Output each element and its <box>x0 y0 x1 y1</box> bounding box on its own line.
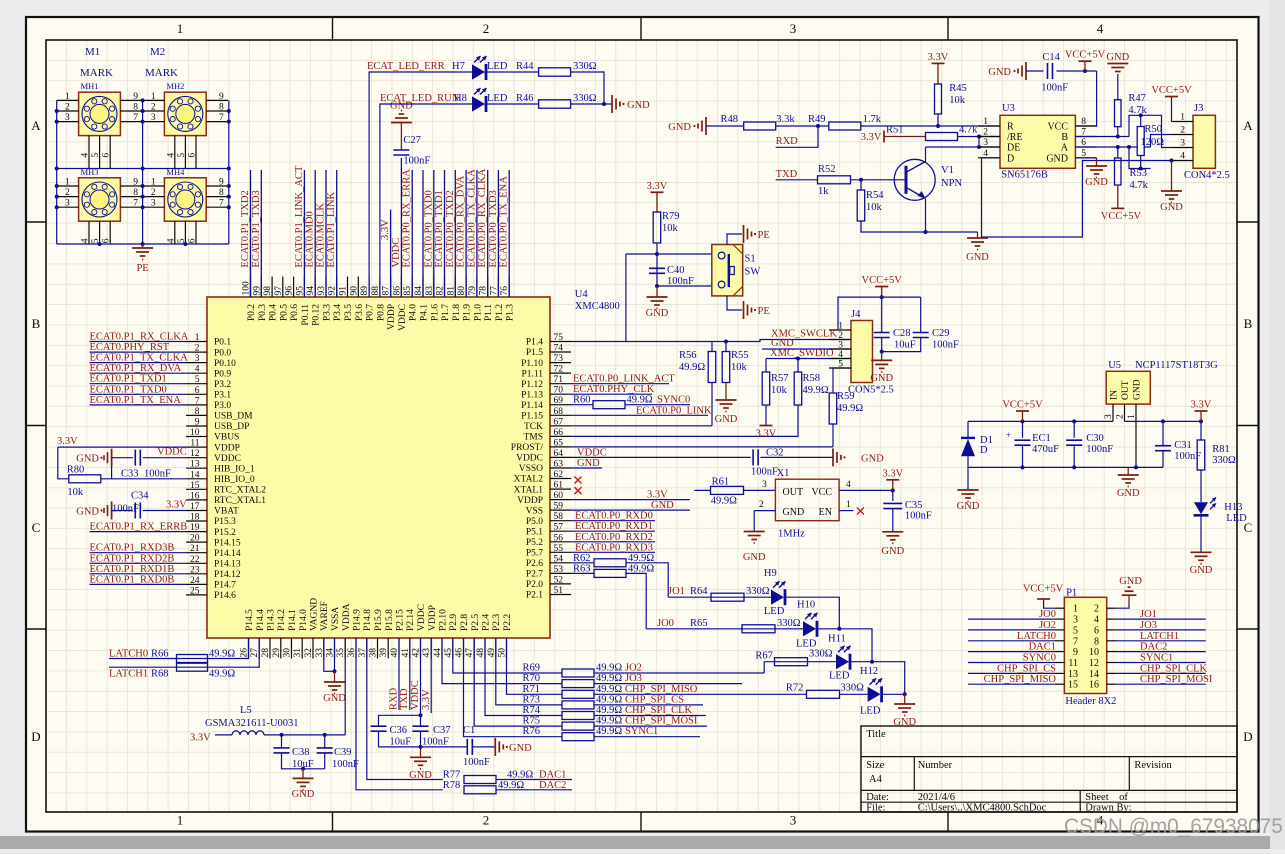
svg-text:ECAT0.P1_TXD0: ECAT0.P1_TXD0 <box>90 384 167 395</box>
svg-text:P14.5: P14.5 <box>245 609 255 631</box>
svg-text:LATCH1: LATCH1 <box>109 669 148 680</box>
svg-text:P3.0: P3.0 <box>214 401 231 411</box>
svg-text:7: 7 <box>195 396 200 406</box>
svg-text:MARK: MARK <box>145 67 178 79</box>
svg-text:VDDC: VDDC <box>391 238 402 268</box>
svg-text:P1.13: P1.13 <box>521 390 543 400</box>
svg-text:R67: R67 <box>755 651 773 662</box>
svg-text:LED: LED <box>764 606 785 617</box>
svg-text:100nF: 100nF <box>667 276 694 287</box>
svg-text:R46: R46 <box>516 93 534 104</box>
svg-text:R61: R61 <box>712 476 730 487</box>
svg-text:49.9Ω: 49.9Ω <box>596 716 622 727</box>
svg-text:R52: R52 <box>818 164 836 175</box>
svg-text:Size: Size <box>866 760 884 771</box>
svg-text:GND: GND <box>966 252 989 263</box>
svg-text:9: 9 <box>219 178 224 188</box>
svg-text:69: 69 <box>554 396 564 406</box>
svg-text:USB_DM: USB_DM <box>214 412 253 422</box>
svg-text:P14.13: P14.13 <box>214 560 241 570</box>
svg-text:57: 57 <box>554 523 564 533</box>
svg-text:ECAT0.P0_TXD2: ECAT0.P0_TXD2 <box>445 190 456 267</box>
svg-text:TCK: TCK <box>524 422 543 432</box>
svg-text:2021/4/6: 2021/4/6 <box>918 792 955 803</box>
svg-text:4: 4 <box>838 350 843 360</box>
svg-text:P14.15: P14.15 <box>214 538 241 548</box>
svg-text:11: 11 <box>1068 658 1078 669</box>
svg-text:12: 12 <box>1089 658 1099 669</box>
svg-text:P14.7: P14.7 <box>214 581 236 591</box>
svg-text:330Ω: 330Ω <box>1212 455 1236 466</box>
svg-text:SYNC0: SYNC0 <box>1023 653 1056 664</box>
svg-text:R60: R60 <box>573 395 591 406</box>
svg-text:P1.4: P1.4 <box>526 338 543 348</box>
svg-text:P0.8: P0.8 <box>376 304 386 321</box>
svg-text:SN65176B: SN65176B <box>1001 170 1048 181</box>
svg-text:1: 1 <box>151 92 156 102</box>
svg-text:6: 6 <box>188 153 198 158</box>
svg-text:VCC+5V: VCC+5V <box>1002 400 1043 411</box>
svg-text:P4.0: P4.0 <box>409 304 419 321</box>
svg-text:TXD: TXD <box>776 169 798 180</box>
svg-text:P0.10: P0.10 <box>214 359 236 369</box>
svg-text:ECAT0.P0_LINK: ECAT0.P0_LINK <box>636 405 712 416</box>
svg-text:4.7k: 4.7k <box>1128 105 1147 116</box>
svg-text:100nF: 100nF <box>332 759 359 770</box>
svg-text:GND: GND <box>627 100 650 111</box>
svg-text:TMS: TMS <box>523 433 543 443</box>
svg-text:CHP_SPI_MOSI: CHP_SPI_MOSI <box>1140 674 1213 685</box>
svg-text:R75: R75 <box>522 716 540 727</box>
svg-text:1MHz: 1MHz <box>778 529 805 540</box>
svg-text:P1.9: P1.9 <box>463 304 473 321</box>
svg-text:15: 15 <box>1068 680 1078 691</box>
svg-text:1k: 1k <box>818 186 829 197</box>
svg-text:A4: A4 <box>869 774 883 785</box>
svg-text:P14.8: P14.8 <box>363 609 373 631</box>
svg-text:J3: J3 <box>1194 103 1203 114</box>
svg-text:3: 3 <box>151 199 156 209</box>
svg-text:P5.0: P5.0 <box>526 517 543 527</box>
svg-text:P14.4: P14.4 <box>256 609 266 631</box>
svg-text:10k: 10k <box>949 95 966 106</box>
svg-text:B: B <box>1061 132 1068 143</box>
svg-text:4: 4 <box>1180 152 1185 162</box>
svg-text:10: 10 <box>190 428 200 438</box>
svg-text:C29: C29 <box>932 328 950 339</box>
svg-text:Sheet of: Sheet of <box>1085 792 1128 803</box>
svg-text:3.3V: 3.3V <box>647 490 668 501</box>
svg-text:R51: R51 <box>886 125 904 136</box>
svg-text:C27: C27 <box>403 135 421 146</box>
svg-text:4: 4 <box>195 365 200 375</box>
svg-text:VDDA: VDDA <box>342 603 352 631</box>
svg-text:49.9Ω: 49.9Ω <box>596 673 622 684</box>
svg-text:P15.3: P15.3 <box>214 517 236 527</box>
svg-text:3: 3 <box>151 113 156 123</box>
svg-text:10uF: 10uF <box>292 759 314 770</box>
svg-text:1: 1 <box>846 500 851 510</box>
svg-text:P0.9: P0.9 <box>214 369 231 379</box>
svg-text:GND: GND <box>1119 576 1142 587</box>
svg-text:100nF: 100nF <box>932 340 959 351</box>
svg-text:5: 5 <box>91 153 101 158</box>
svg-text:H8: H8 <box>454 93 467 104</box>
svg-text:GND: GND <box>76 507 99 518</box>
svg-text:1: 1 <box>65 92 70 102</box>
svg-text:R68: R68 <box>151 669 169 680</box>
svg-text:C40: C40 <box>667 265 685 276</box>
svg-text:SYNC1: SYNC1 <box>1140 653 1173 664</box>
svg-text:GND: GND <box>76 454 99 465</box>
svg-text:P1.12: P1.12 <box>521 380 543 390</box>
svg-text:RTC_XTAL2: RTC_XTAL2 <box>214 486 266 496</box>
svg-text:49.9Ω: 49.9Ω <box>628 563 654 574</box>
svg-text:49.9Ω: 49.9Ω <box>596 705 622 716</box>
svg-text:R47: R47 <box>1128 93 1146 104</box>
svg-text:49.9Ω: 49.9Ω <box>803 385 829 396</box>
svg-text:P1: P1 <box>1066 588 1077 599</box>
svg-text:HIB_IO_1: HIB_IO_1 <box>214 464 255 474</box>
svg-text:ECAT0.P0_TXD0: ECAT0.P0_TXD0 <box>423 190 434 267</box>
svg-text:5: 5 <box>1073 625 1078 636</box>
svg-text:PE: PE <box>136 263 148 274</box>
svg-text:D: D <box>31 729 40 744</box>
svg-text:TXD: TXD <box>399 688 410 710</box>
svg-text:A: A <box>1061 143 1069 154</box>
svg-text:3.3V: 3.3V <box>928 52 949 63</box>
svg-text:C: C <box>32 520 41 535</box>
svg-text:4: 4 <box>81 153 91 158</box>
svg-text:38: 38 <box>369 648 379 658</box>
svg-text:ECAT0.P1_LINK: ECAT0.P1_LINK <box>326 192 337 268</box>
svg-text:JO1: JO1 <box>1140 609 1157 620</box>
svg-text:JO2: JO2 <box>1039 620 1056 631</box>
svg-text:3.3k: 3.3k <box>776 114 795 125</box>
svg-text:29: 29 <box>272 648 282 658</box>
svg-text:1: 1 <box>151 178 156 188</box>
svg-text:LED: LED <box>487 93 508 104</box>
svg-text:P0.1: P0.1 <box>214 338 231 348</box>
svg-text:ECAT0.P0_TXD3: ECAT0.P0_TXD3 <box>488 190 499 267</box>
svg-text:VDDP: VDDP <box>517 496 543 506</box>
svg-text:13: 13 <box>190 460 200 470</box>
svg-text:H11: H11 <box>828 634 846 645</box>
svg-text:P15.9: P15.9 <box>374 609 384 631</box>
svg-text:1: 1 <box>177 21 184 36</box>
svg-text:R70: R70 <box>522 673 540 684</box>
svg-text:C32: C32 <box>766 447 784 458</box>
svg-text:CHP_SPI_CS: CHP_SPI_CS <box>625 694 684 705</box>
svg-text:330Ω: 330Ω <box>746 586 770 597</box>
svg-text:XMC4800: XMC4800 <box>575 301 620 312</box>
svg-text:14: 14 <box>190 470 200 480</box>
svg-text:RXD: RXD <box>776 136 799 147</box>
svg-text:P0.3: P0.3 <box>258 304 268 321</box>
svg-text:ECAT_LED_ERR: ECAT_LED_ERR <box>367 61 445 72</box>
svg-text:VCC: VCC <box>811 487 832 498</box>
svg-text:7: 7 <box>219 113 224 123</box>
svg-text:J4: J4 <box>851 309 861 320</box>
svg-text:NCP1117ST18T3G: NCP1117ST18T3G <box>1135 360 1218 371</box>
svg-text:B: B <box>32 316 41 331</box>
svg-text:LED: LED <box>829 671 850 682</box>
svg-text:VSS: VSS <box>526 506 543 516</box>
svg-text:VDDC: VDDC <box>516 454 543 464</box>
svg-text:ECAT0.P1_RX_DVA: ECAT0.P1_RX_DVA <box>90 363 182 374</box>
svg-text:P1.3: P1.3 <box>506 304 516 321</box>
svg-text:P2.2: P2.2 <box>503 614 513 631</box>
svg-text:ECAT0.P0_RX_ERRA: ECAT0.P0_RX_ERRA <box>402 169 413 268</box>
svg-text:VBUS: VBUS <box>214 433 239 443</box>
svg-text:CHP_SPI_CS: CHP_SPI_CS <box>997 663 1056 674</box>
svg-text:ECAT0.P0_RXD1: ECAT0.P0_RXD1 <box>575 521 653 532</box>
svg-text:9: 9 <box>219 92 224 102</box>
svg-text:P1.15: P1.15 <box>521 412 543 422</box>
svg-text:P2.14: P2.14 <box>406 609 416 631</box>
svg-text:3.3V: 3.3V <box>421 689 432 710</box>
svg-text:1: 1 <box>1073 604 1078 615</box>
svg-text:RXD: RXD <box>389 687 400 710</box>
svg-text:C35: C35 <box>905 500 923 511</box>
svg-text:P2.10: P2.10 <box>439 609 449 631</box>
svg-text:VSSA: VSSA <box>331 607 341 631</box>
svg-text:GND: GND <box>409 770 432 781</box>
svg-text:GND: GND <box>861 453 884 464</box>
svg-text:LATCH1: LATCH1 <box>1140 631 1179 642</box>
svg-text:7: 7 <box>219 199 224 209</box>
svg-text:P2.3: P2.3 <box>492 614 502 631</box>
svg-text:V1: V1 <box>941 165 954 176</box>
svg-text:49.9Ω: 49.9Ω <box>209 649 235 660</box>
svg-text:XTAL1: XTAL1 <box>514 485 544 495</box>
svg-text:39: 39 <box>379 648 389 658</box>
svg-text:VDDC: VDDC <box>410 680 421 710</box>
svg-text:A: A <box>1243 118 1253 133</box>
svg-text:ECAT0.P1_LINK_ACT: ECAT0.P1_LINK_ACT <box>294 165 305 267</box>
svg-text:72: 72 <box>554 365 564 375</box>
svg-text:1: 1 <box>177 813 184 828</box>
svg-text:GND: GND <box>783 507 805 518</box>
svg-text:P15.8: P15.8 <box>385 609 395 631</box>
svg-text:R55: R55 <box>731 350 749 361</box>
svg-text:2: 2 <box>1094 604 1099 615</box>
svg-text:8: 8 <box>133 188 138 198</box>
svg-text:U4: U4 <box>575 289 589 300</box>
svg-text:9: 9 <box>133 178 138 188</box>
svg-text:ECAT0.P0_TX_CLKA: ECAT0.P0_TX_CLKA <box>466 169 477 268</box>
svg-text:VSSO: VSSO <box>519 464 543 474</box>
svg-text:P0.11: P0.11 <box>301 304 311 326</box>
svg-text:GND: GND <box>715 414 738 425</box>
svg-text:9: 9 <box>133 92 138 102</box>
svg-text:P3.6: P3.6 <box>355 304 365 321</box>
svg-text:VDDC: VDDC <box>577 447 607 458</box>
svg-text:H13: H13 <box>1224 502 1242 513</box>
svg-text:GND: GND <box>1133 379 1143 400</box>
svg-text:73: 73 <box>554 354 564 364</box>
svg-text:5: 5 <box>195 375 200 385</box>
svg-text:8: 8 <box>1081 117 1086 127</box>
svg-text:ECAT0.P0_RX_CLKA: ECAT0.P0_RX_CLKA <box>477 168 488 267</box>
svg-text:P2.15: P2.15 <box>396 609 406 631</box>
svg-text:CHP_SPI_MISO: CHP_SPI_MISO <box>984 674 1057 685</box>
svg-text:GND: GND <box>743 552 766 563</box>
svg-text:P4.1: P4.1 <box>420 304 430 321</box>
svg-text:6: 6 <box>102 153 112 158</box>
svg-text:JO0: JO0 <box>657 618 674 629</box>
svg-text:P3.1: P3.1 <box>214 391 231 401</box>
svg-text:LED: LED <box>796 638 817 649</box>
svg-text:24: 24 <box>190 576 200 586</box>
svg-text:6: 6 <box>102 238 112 243</box>
svg-text:P5.7: P5.7 <box>526 549 543 559</box>
svg-text:GND: GND <box>1046 153 1068 164</box>
svg-text:VCC+5V: VCC+5V <box>1023 584 1064 595</box>
svg-text:ECAT0.PHY_RST: ECAT0.PHY_RST <box>90 342 170 353</box>
svg-text:61: 61 <box>554 481 564 491</box>
svg-text:ECAT0.P1_TXD2: ECAT0.P1_TXD2 <box>240 190 251 267</box>
svg-text:32: 32 <box>304 648 314 658</box>
svg-text:2: 2 <box>483 21 490 36</box>
svg-text:LATCH0: LATCH0 <box>109 649 148 660</box>
svg-text:C30: C30 <box>1086 433 1104 444</box>
svg-text:C1: C1 <box>463 725 475 736</box>
svg-text:XMC_SWDIO: XMC_SWDIO <box>770 348 834 359</box>
svg-text:P2.5: P2.5 <box>471 614 481 631</box>
svg-text:10k: 10k <box>662 223 679 234</box>
svg-text:VDDC: VDDC <box>157 447 187 458</box>
svg-text:D: D <box>1243 729 1252 744</box>
svg-text:7: 7 <box>133 199 138 209</box>
svg-text:5: 5 <box>177 153 187 158</box>
svg-text:ECAT0.P1_RXD3B: ECAT0.P1_RXD3B <box>90 543 175 554</box>
svg-text:GND: GND <box>771 338 794 349</box>
svg-text:1.7k: 1.7k <box>863 114 882 125</box>
svg-text:ECAT0.PHY_CLK: ECAT0.PHY_CLK <box>573 384 655 395</box>
svg-text:VDDP: VDDP <box>214 443 240 453</box>
svg-text:52: 52 <box>554 575 564 585</box>
svg-text:P5.1: P5.1 <box>526 527 543 537</box>
svg-text:X1: X1 <box>777 468 790 479</box>
svg-text:10k: 10k <box>67 487 84 498</box>
svg-text:P2.6: P2.6 <box>526 559 543 569</box>
svg-text:1: 1 <box>195 333 200 343</box>
svg-text:P3.2: P3.2 <box>214 380 231 390</box>
svg-text:CHP_SPI_CLK: CHP_SPI_CLK <box>625 705 693 716</box>
svg-text:C37: C37 <box>433 725 451 736</box>
svg-text:A: A <box>31 118 41 133</box>
svg-text:91: 91 <box>339 286 349 296</box>
svg-text:49.9Ω: 49.9Ω <box>596 726 622 737</box>
svg-text:VDDP: VDDP <box>428 605 438 631</box>
svg-text:49.9Ω: 49.9Ω <box>679 362 705 373</box>
svg-text:1: 1 <box>1180 113 1185 123</box>
svg-text:P3.4: P3.4 <box>333 304 343 321</box>
svg-text:DAC2: DAC2 <box>539 780 566 791</box>
svg-text:6: 6 <box>188 238 198 243</box>
svg-text:C34: C34 <box>131 491 149 502</box>
svg-text:H10: H10 <box>797 599 815 610</box>
svg-text:Title: Title <box>866 729 886 740</box>
svg-text:75: 75 <box>554 333 564 343</box>
svg-text:P0.6: P0.6 <box>290 304 300 321</box>
svg-text:GND: GND <box>668 122 691 133</box>
svg-text:70: 70 <box>554 386 564 396</box>
svg-text:LATCH0: LATCH0 <box>1017 631 1056 642</box>
svg-text:GND: GND <box>292 789 315 800</box>
svg-text:R53: R53 <box>1130 168 1148 179</box>
svg-text:D: D <box>1007 153 1014 164</box>
svg-text:49.9Ω: 49.9Ω <box>627 395 653 406</box>
svg-text:P14.3: P14.3 <box>267 609 277 631</box>
svg-text:CON4*2.5: CON4*2.5 <box>1184 170 1230 181</box>
svg-text:60: 60 <box>554 491 564 501</box>
svg-text:120Ω: 120Ω <box>1141 137 1165 148</box>
svg-text:P0.7: P0.7 <box>366 304 376 321</box>
svg-text:470uF: 470uF <box>1032 444 1059 455</box>
svg-text:D: D <box>980 445 988 456</box>
svg-text:JO1: JO1 <box>668 586 685 597</box>
svg-text:C:\Users\..\XMC4800.SchDoc: C:\Users\..\XMC4800.SchDoc <box>918 803 1047 814</box>
svg-text:DE: DE <box>1007 143 1020 154</box>
svg-text:VCC+5V: VCC+5V <box>1101 211 1142 222</box>
svg-text:P0.12: P0.12 <box>312 304 322 326</box>
svg-text:P14.14: P14.14 <box>214 549 241 559</box>
svg-text:58: 58 <box>554 512 564 522</box>
svg-text:10uF: 10uF <box>390 737 412 748</box>
svg-text:/RE: /RE <box>1007 132 1023 143</box>
svg-text:15: 15 <box>190 481 200 491</box>
svg-text:R56: R56 <box>679 350 697 361</box>
svg-text:C14: C14 <box>1042 52 1060 63</box>
svg-text:66: 66 <box>554 428 564 438</box>
svg-text:2: 2 <box>151 188 156 198</box>
svg-text:330Ω: 330Ω <box>777 618 801 629</box>
svg-text:+: + <box>1006 430 1011 440</box>
svg-text:330Ω: 330Ω <box>573 93 597 104</box>
svg-text:R81: R81 <box>1212 444 1230 455</box>
svg-text:R71: R71 <box>522 684 540 695</box>
svg-text:98: 98 <box>263 286 273 296</box>
svg-text:LED: LED <box>487 61 508 72</box>
svg-text:R45: R45 <box>949 83 967 94</box>
svg-text:GND: GND <box>870 373 893 384</box>
svg-text:R48: R48 <box>721 114 739 125</box>
svg-text:100nF: 100nF <box>751 466 778 477</box>
svg-text:49.9Ω: 49.9Ω <box>209 669 235 680</box>
svg-text:VCC+5V: VCC+5V <box>862 275 903 286</box>
svg-text:NPN: NPN <box>941 178 962 189</box>
svg-text:P1.8: P1.8 <box>452 304 462 321</box>
svg-text:6: 6 <box>195 386 200 396</box>
svg-text:2: 2 <box>1180 126 1185 136</box>
svg-text:GND: GND <box>577 458 600 469</box>
svg-text:1: 1 <box>65 178 70 188</box>
svg-text:EC1: EC1 <box>1032 433 1051 444</box>
svg-text:11: 11 <box>190 439 199 449</box>
svg-text:GND: GND <box>1190 565 1213 576</box>
svg-text:3: 3 <box>762 480 767 490</box>
svg-text:3.3V: 3.3V <box>647 181 668 192</box>
svg-text:100nF: 100nF <box>1041 83 1068 94</box>
svg-text:ECAT0.P1_RXD0B: ECAT0.P1_RXD0B <box>90 574 175 585</box>
svg-text:R49: R49 <box>808 114 826 125</box>
svg-text:VDDC: VDDC <box>214 454 241 464</box>
svg-text:3.3V: 3.3V <box>756 429 777 440</box>
svg-text:M2: M2 <box>150 46 165 58</box>
svg-text:GND: GND <box>881 546 904 557</box>
